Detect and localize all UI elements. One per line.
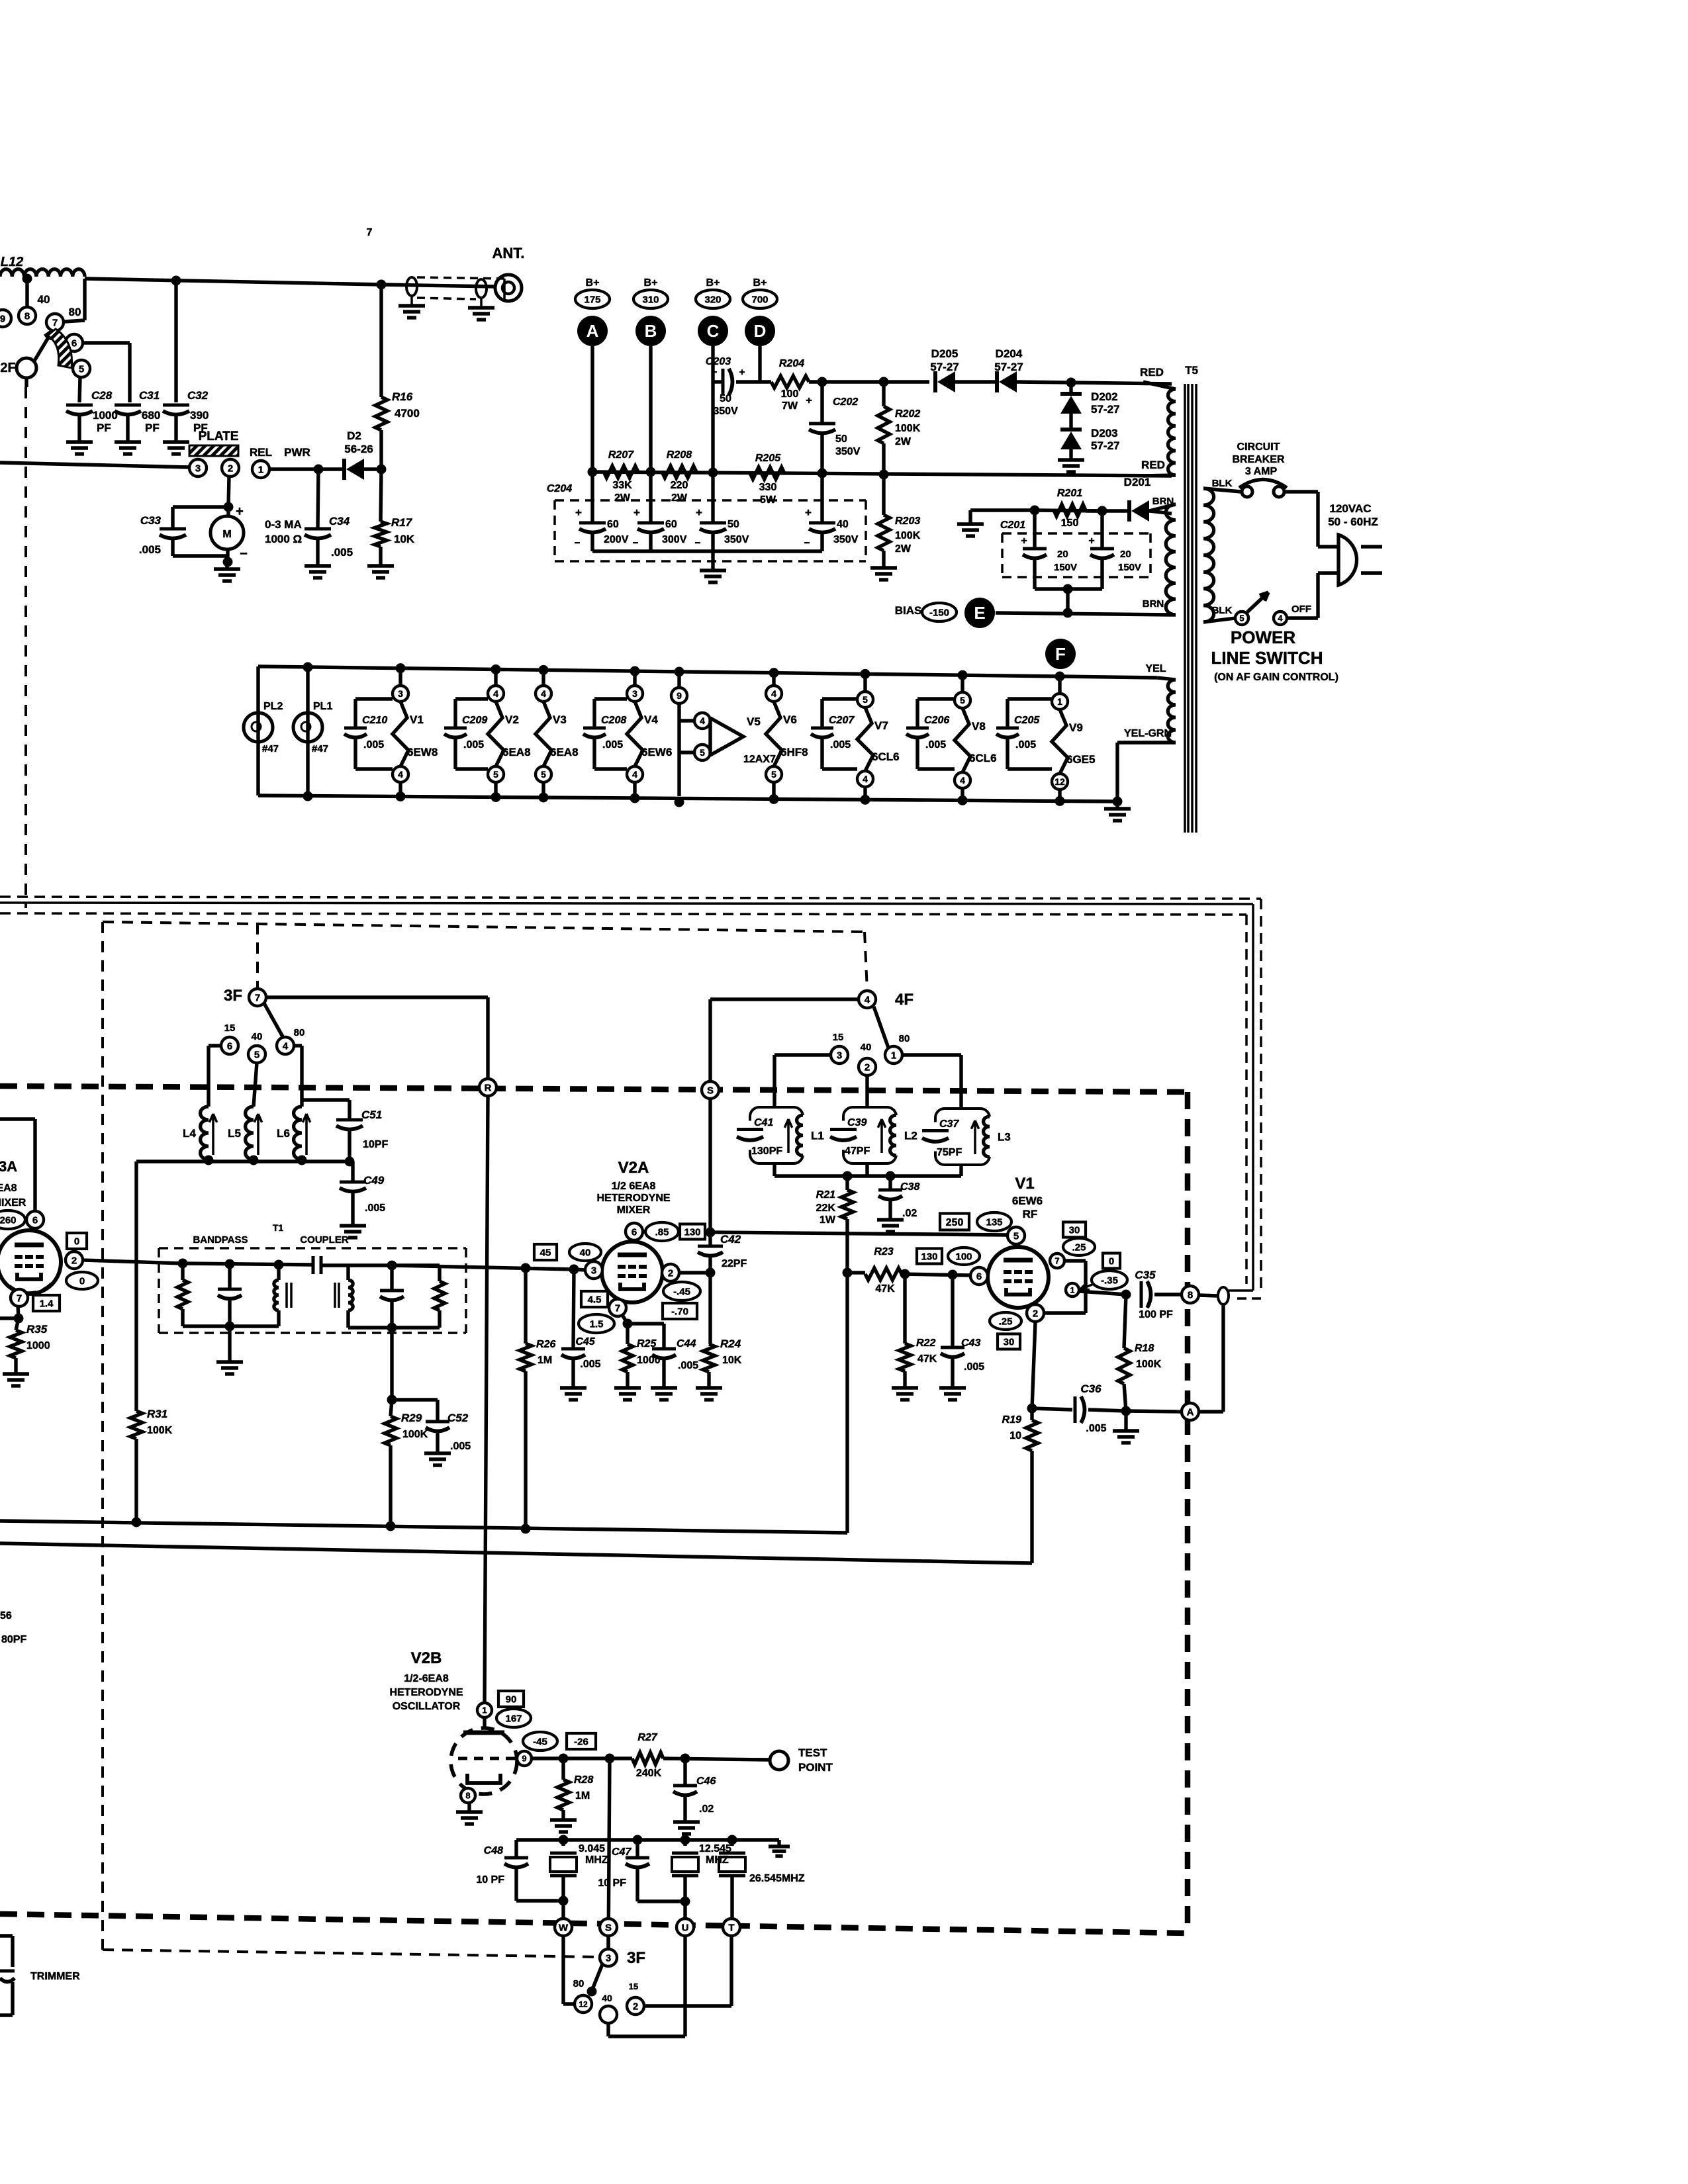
svg-text:5: 5 <box>863 694 868 705</box>
svg-text:R208: R208 <box>667 449 692 461</box>
tube V4 6EW6 heater <box>633 671 636 686</box>
terminal 7 <box>46 314 64 331</box>
svg-text:(ON AF GAIN CONTROL): (ON AF GAIN CONTROL) <box>1214 672 1338 683</box>
svg-text:.005: .005 <box>1015 739 1036 751</box>
svg-text:.005: .005 <box>602 739 623 751</box>
terminal S bottom <box>600 1919 617 1936</box>
resistor R16 4700 <box>379 285 383 397</box>
capacitor T1 coupling <box>312 1256 315 1274</box>
svg-text:C47: C47 <box>612 1846 632 1858</box>
wire V3A pin2 to coupler <box>83 1260 183 1263</box>
svg-text:BREAKER: BREAKER <box>1232 454 1285 465</box>
svg-text:C31: C31 <box>139 389 160 402</box>
ground below C204 <box>700 569 726 572</box>
svg-text:-150: -150 <box>929 607 949 618</box>
resistor R201 150 <box>1054 504 1086 516</box>
svg-text:C45: C45 <box>575 1336 595 1347</box>
svg-text:9: 9 <box>522 1754 526 1764</box>
tube V1 6EW8 heater <box>399 668 402 686</box>
svg-text:10 PF: 10 PF <box>476 1874 504 1886</box>
svg-text:3: 3 <box>606 1952 611 1964</box>
svg-text:-45: -45 <box>533 1736 547 1747</box>
svg-text:4: 4 <box>865 994 870 1005</box>
svg-text:100K: 100K <box>1136 1359 1162 1370</box>
svg-text:C36: C36 <box>1080 1383 1102 1395</box>
svg-text:B+: B+ <box>644 277 658 289</box>
wire pin1 to C35 <box>1079 1291 1126 1295</box>
terminal F <box>1045 639 1076 669</box>
svg-text:1.4: 1.4 <box>40 1298 54 1309</box>
svg-text:6EW6: 6EW6 <box>641 746 672 758</box>
wire T1 right bottom <box>348 1326 440 1329</box>
resistor R22 47K <box>903 1274 906 1343</box>
resistor R25 1000 <box>626 1324 629 1344</box>
wire B+ A down <box>590 346 594 472</box>
switch 4F terminal 1 <box>885 1046 902 1064</box>
svg-text:V1: V1 <box>410 713 424 726</box>
electrolytic C204A 60 200V <box>590 472 594 522</box>
svg-text:1: 1 <box>1070 1285 1075 1295</box>
ground at C36 <box>1124 1411 1127 1431</box>
wire coupler out to V2A pin3 <box>440 1265 466 1266</box>
svg-text:47K: 47K <box>875 1283 895 1295</box>
svg-text:RED: RED <box>1140 366 1164 379</box>
test point <box>770 1751 788 1770</box>
svg-text:D203: D203 <box>1091 427 1118 439</box>
terminal 9 <box>0 310 11 327</box>
resistor R35 1000 <box>18 1306 19 1318</box>
svg-text:40: 40 <box>837 519 849 530</box>
svg-text:5: 5 <box>254 1049 259 1060</box>
svg-text:#47: #47 <box>262 743 279 754</box>
wire 2 to T <box>644 2004 731 2007</box>
svg-text:.02: .02 <box>902 1208 917 1219</box>
wire B+ D down <box>758 346 761 382</box>
svg-text:10PF: 10PF <box>363 1139 388 1150</box>
svg-text:.25: .25 <box>999 1316 1013 1327</box>
svg-text:+: + <box>575 506 582 519</box>
svg-text:+: + <box>236 504 244 519</box>
svg-text:-.35: -.35 <box>1101 1275 1118 1286</box>
electrolytic C204D 40 350V <box>820 473 823 522</box>
svg-text:L6: L6 <box>277 1127 290 1140</box>
power switch terminal 5 <box>1235 612 1248 625</box>
capacitor C33 .005 <box>173 505 228 508</box>
svg-text:220: 220 <box>671 480 688 491</box>
resistor R204 100 7W <box>760 380 771 383</box>
svg-text:120VAC: 120VAC <box>1330 502 1372 515</box>
svg-text:PLATE: PLATE <box>199 430 239 443</box>
svg-text:4: 4 <box>283 1040 289 1052</box>
svg-text:V2A: V2A <box>618 1159 649 1177</box>
svg-text:2: 2 <box>71 1255 77 1266</box>
wire V1 cathode down <box>1032 1322 1035 1408</box>
svg-text:0-3 MA: 0-3 MA <box>265 518 302 531</box>
svg-text:#47: #47 <box>312 743 328 754</box>
wire tank bottom to R29 <box>390 1328 393 1400</box>
svg-text:260: 260 <box>0 1214 17 1226</box>
svg-text:+: + <box>696 506 702 519</box>
wire W to 12 <box>561 1936 565 2004</box>
wire coil common <box>136 1160 350 1163</box>
svg-text:−: − <box>633 537 639 549</box>
svg-text:T: T <box>728 1922 734 1933</box>
svg-text:3F: 3F <box>224 987 242 1005</box>
rotary switch hatched sector <box>48 329 72 368</box>
wire V2A pin2 to R24 <box>679 1271 710 1274</box>
svg-text:50: 50 <box>727 519 739 530</box>
svg-text:6EA8: 6EA8 <box>502 746 531 758</box>
switch 4F wiper <box>874 1007 888 1048</box>
svg-text:A: A <box>586 321 599 341</box>
svg-text:80: 80 <box>899 1033 910 1044</box>
svg-text:MIXER: MIXER <box>0 1197 26 1208</box>
wire S to 3F-3 <box>606 1936 610 1949</box>
svg-text:300V: 300V <box>662 534 687 545</box>
svg-text:10K: 10K <box>394 533 415 545</box>
svg-text:.005: .005 <box>678 1360 698 1371</box>
svg-text:C48: C48 <box>484 1845 503 1856</box>
svg-text:V5: V5 <box>747 715 761 728</box>
svg-text:80PF: 80PF <box>1 1634 26 1645</box>
svg-text:1M: 1M <box>575 1790 590 1801</box>
svg-text:100K: 100K <box>147 1425 173 1436</box>
svg-text:40: 40 <box>861 1042 872 1053</box>
terminal 6 <box>66 334 83 351</box>
svg-text:5: 5 <box>771 769 776 780</box>
svg-text:−: − <box>240 547 248 561</box>
V1 pin 6 <box>917 1249 942 1264</box>
svg-text:7: 7 <box>367 227 373 238</box>
svg-text:+: + <box>633 506 640 519</box>
svg-text:45: 45 <box>540 1247 551 1258</box>
svg-text:150: 150 <box>1061 518 1079 529</box>
svg-text:4: 4 <box>863 774 868 784</box>
wire L1 to 4F-3 <box>773 1055 776 1107</box>
svg-text:HETERODYNE: HETERODYNE <box>389 1687 463 1698</box>
svg-text:−: − <box>575 537 581 549</box>
svg-text:56: 56 <box>0 1610 12 1621</box>
wire from left edge to cathode <box>0 1316 19 1320</box>
svg-text:6EA8: 6EA8 <box>550 746 579 758</box>
svg-text:40: 40 <box>38 293 50 306</box>
capacitor C203 50/350V <box>713 380 723 383</box>
svg-text:22K: 22K <box>816 1203 836 1214</box>
wire YEL-GRN <box>1117 741 1176 744</box>
wire B+ C down <box>711 346 714 472</box>
wire antenna line <box>85 279 381 285</box>
svg-text:OFF: OFF <box>1291 604 1311 615</box>
svg-text:D202: D202 <box>1091 390 1118 403</box>
svg-text:130: 130 <box>684 1226 700 1238</box>
diode D202 57-27 <box>1069 383 1072 392</box>
crystal 26.545MHZ <box>730 1840 733 1846</box>
capacitor C49 .005 <box>351 1161 354 1182</box>
tube V3 6EA8 heater <box>541 670 545 686</box>
svg-text:-.70: -.70 <box>671 1306 688 1317</box>
svg-text:C52: C52 <box>447 1412 469 1424</box>
svg-text:40: 40 <box>580 1247 591 1258</box>
svg-text:167: 167 <box>505 1713 522 1724</box>
wire 3F to R <box>266 995 488 999</box>
svg-text:1/2 6EA8: 1/2 6EA8 <box>612 1181 656 1192</box>
svg-text:8: 8 <box>1188 1289 1193 1300</box>
terminal U <box>677 1919 694 1936</box>
svg-text:60: 60 <box>665 519 677 530</box>
resistor T1 right <box>392 1263 440 1267</box>
svg-text:.005: .005 <box>1086 1423 1106 1434</box>
svg-text:320: 320 <box>704 294 721 305</box>
wire U loop <box>683 1936 686 2036</box>
svg-text:T5: T5 <box>1185 364 1198 377</box>
ground bias left <box>968 510 972 524</box>
svg-text:2W: 2W <box>895 543 912 555</box>
capacitor C38 .02 <box>888 1176 892 1190</box>
svg-text:80: 80 <box>69 306 81 318</box>
svg-text:700: 700 <box>751 294 768 305</box>
svg-text:40: 40 <box>252 1031 263 1042</box>
svg-text:−: − <box>712 367 718 378</box>
svg-text:1000 Ω: 1000 Ω <box>265 533 302 545</box>
terminal 2 <box>222 459 239 477</box>
wire L common down to R31 <box>134 1161 138 1411</box>
svg-text:100 PF: 100 PF <box>1139 1309 1173 1320</box>
wire tank common <box>773 1163 776 1176</box>
svg-text:.005: .005 <box>925 739 946 751</box>
svg-text:-26: -26 <box>574 1736 588 1747</box>
capacitor T1 left <box>228 1264 231 1289</box>
svg-text:+: + <box>1088 535 1094 547</box>
resistor R203 100K 2W <box>882 475 885 515</box>
svg-text:C: C <box>707 321 720 341</box>
resistor R21 22K 1W <box>845 1176 849 1190</box>
svg-text:CIRCUIT: CIRCUIT <box>1237 441 1280 453</box>
svg-text:1.5: 1.5 <box>590 1318 604 1330</box>
svg-text:EA8: EA8 <box>0 1183 17 1194</box>
svg-text:4: 4 <box>960 775 965 786</box>
resistor R29 100K <box>385 1416 397 1445</box>
svg-text:R203: R203 <box>895 516 920 527</box>
switch 3F wiper to 80 <box>264 1003 283 1038</box>
crystal 12.545MHZ <box>683 1840 686 1846</box>
wire pin5 to C28 <box>79 377 80 402</box>
capacitor C31 680PF <box>115 404 141 407</box>
ground heater bus <box>1113 797 1123 807</box>
svg-text:ANT.: ANT. <box>492 245 525 261</box>
resistor R17 10K <box>381 469 381 522</box>
svg-text:2: 2 <box>865 1062 870 1073</box>
svg-text:57-27: 57-27 <box>1091 403 1119 416</box>
V1 pin 7 top right <box>1050 1253 1064 1268</box>
svg-text:C43: C43 <box>961 1338 980 1349</box>
svg-text:390: 390 <box>190 409 209 422</box>
inductor L5 <box>254 1063 257 1107</box>
svg-text:5: 5 <box>1013 1230 1019 1242</box>
svg-text:1: 1 <box>258 464 263 475</box>
tube V9 6GE5 heater <box>1058 676 1061 694</box>
svg-text:12: 12 <box>1055 776 1065 787</box>
svg-text:75PF: 75PF <box>937 1147 962 1158</box>
svg-text:350V: 350V <box>713 406 738 417</box>
svg-text:.005: .005 <box>450 1441 471 1452</box>
tank L1 C41 130PF <box>750 1107 803 1163</box>
svg-text:C41: C41 <box>754 1117 773 1128</box>
svg-text:C202: C202 <box>833 396 858 408</box>
wire to diode D2 <box>314 465 324 475</box>
svg-text:10: 10 <box>1009 1430 1021 1441</box>
electrolytic C204B 60 300V <box>649 473 652 522</box>
svg-text:4: 4 <box>398 769 403 780</box>
svg-text:PWR: PWR <box>284 446 310 459</box>
inner dashed wafer box <box>101 922 104 1950</box>
svg-text:C49: C49 <box>363 1174 385 1187</box>
svg-text:R22: R22 <box>916 1338 935 1349</box>
capacitor C202 50/350V <box>820 382 823 424</box>
tank L2 C39 47PF <box>843 1107 896 1163</box>
wire left lower feed <box>0 463 189 467</box>
svg-text:2W: 2W <box>671 492 688 504</box>
svg-text:50: 50 <box>835 433 847 445</box>
svg-text:10K: 10K <box>722 1355 742 1366</box>
transformer T5 HV secondary winding <box>1168 389 1176 475</box>
svg-text:C207: C207 <box>829 715 855 726</box>
terminal 3 <box>189 459 207 477</box>
svg-text:R24: R24 <box>720 1338 741 1350</box>
svg-text:6CL6: 6CL6 <box>872 751 900 763</box>
svg-text:MIXER: MIXER <box>617 1205 651 1216</box>
svg-text:1/2-6EA8: 1/2-6EA8 <box>404 1673 449 1684</box>
wire RED lower line <box>592 472 1172 476</box>
svg-text:15: 15 <box>629 1981 638 1991</box>
svg-text:15: 15 <box>833 1032 844 1043</box>
svg-text:.005: .005 <box>830 739 851 751</box>
svg-text:175: 175 <box>584 294 600 305</box>
capacitor C43 .005 <box>951 1275 954 1347</box>
svg-text:4: 4 <box>493 688 498 699</box>
capacitor C206 .005 heater bypass <box>915 699 919 728</box>
diode D2 56-26 <box>269 467 342 471</box>
svg-text:BRN: BRN <box>1143 598 1164 610</box>
svg-text:C46: C46 <box>696 1776 716 1787</box>
svg-text:S: S <box>605 1922 612 1933</box>
svg-text:80: 80 <box>294 1027 305 1038</box>
V2B pin 8 <box>461 1788 475 1803</box>
svg-text:R18: R18 <box>1135 1343 1154 1354</box>
svg-text:350V: 350V <box>833 534 859 545</box>
wire V2B grid row <box>532 1756 632 1760</box>
svg-text:PF: PF <box>145 422 160 434</box>
svg-text:47K: 47K <box>917 1353 937 1365</box>
svg-text:30: 30 <box>1069 1224 1080 1236</box>
inductor T1 secondary <box>321 1263 348 1267</box>
svg-text:350V: 350V <box>724 534 749 545</box>
svg-text:.005: .005 <box>463 739 484 751</box>
wire YEL to transformer <box>1060 676 1157 678</box>
svg-text:1: 1 <box>482 1706 487 1715</box>
svg-text:50: 50 <box>720 393 731 404</box>
svg-text:HETERODYNE: HETERODYNE <box>596 1193 670 1204</box>
V2A pin 3 <box>585 1261 602 1279</box>
wire crystal select down <box>608 1758 610 1949</box>
svg-text:C44: C44 <box>677 1338 696 1349</box>
svg-text:OSCILLATOR: OSCILLATOR <box>393 1701 461 1712</box>
svg-text:R27: R27 <box>637 1732 657 1743</box>
resistor R202 100K 2W <box>882 382 885 406</box>
svg-text:BIAS: BIAS <box>895 604 922 617</box>
svg-text:V3: V3 <box>553 713 567 726</box>
crystal 9.045MHZ <box>561 1840 565 1846</box>
svg-text:C38: C38 <box>900 1181 919 1193</box>
V2B pin 9 <box>517 1751 532 1766</box>
svg-text:V1: V1 <box>1015 1175 1034 1193</box>
terminal 8 <box>19 307 36 324</box>
svg-text:RED: RED <box>1141 459 1165 471</box>
svg-text:REL: REL <box>250 446 272 459</box>
diode D203 57-27 <box>1069 414 1072 428</box>
wire crystal top bus <box>516 1838 779 1841</box>
svg-text:47PF: 47PF <box>845 1146 870 1157</box>
coax shield at antenna <box>406 277 417 296</box>
svg-text:TEST: TEST <box>798 1747 827 1759</box>
svg-text:26.545MHZ: 26.545MHZ <box>749 1873 805 1884</box>
svg-text:2: 2 <box>1033 1308 1038 1319</box>
svg-text:4: 4 <box>541 688 546 699</box>
svg-text:15: 15 <box>224 1023 236 1034</box>
svg-text:330: 330 <box>759 482 777 493</box>
tube V2 6EA8 heater <box>494 669 497 686</box>
svg-text:COUPLER: COUPLER <box>300 1234 349 1246</box>
svg-text:+: + <box>805 506 812 519</box>
svg-text:3A: 3A <box>0 1158 17 1175</box>
resistor R207 33K 2W <box>604 466 638 478</box>
svg-text:D201: D201 <box>1124 476 1151 488</box>
svg-text:B+: B+ <box>706 277 720 289</box>
svg-text:2W: 2W <box>895 436 912 447</box>
svg-text:PF: PF <box>97 422 111 434</box>
svg-text:57-27: 57-27 <box>1091 439 1119 452</box>
svg-text:56-26: 56-26 <box>344 443 373 455</box>
V3A value boxes <box>67 1233 87 1249</box>
svg-text:R23: R23 <box>874 1246 893 1257</box>
wire to terminal A <box>1126 1411 1182 1412</box>
electrolytic C201B 20 150V <box>1100 511 1103 547</box>
svg-text:C39: C39 <box>847 1117 867 1128</box>
svg-text:L5: L5 <box>228 1127 241 1140</box>
svg-text:.005: .005 <box>363 739 384 751</box>
svg-text:3: 3 <box>837 1050 842 1061</box>
svg-text:100K: 100K <box>895 423 921 434</box>
svg-text:5: 5 <box>700 747 705 758</box>
V2A pin 7 <box>609 1299 626 1316</box>
wire heater bottom bus <box>258 796 1117 801</box>
wire B+ B down <box>649 346 652 472</box>
svg-text:1W: 1W <box>820 1214 836 1226</box>
terminal V3A pin 6 <box>0 1117 35 1120</box>
svg-text:680: 680 <box>142 409 160 422</box>
svg-text:0: 0 <box>74 1236 79 1247</box>
svg-text:R207: R207 <box>608 449 634 461</box>
svg-text:C209: C209 <box>462 715 487 726</box>
wire R23 row <box>847 1271 865 1274</box>
V1 pin 1 right <box>1066 1283 1079 1297</box>
capacitor C210 .005 heater bypass <box>353 699 357 728</box>
transformer T5 heater winding <box>1168 680 1176 743</box>
svg-text:4: 4 <box>632 769 637 780</box>
svg-text:.25: .25 <box>1072 1242 1086 1253</box>
capacitor C205 .005 heater bypass <box>1006 699 1009 728</box>
svg-text:6: 6 <box>632 1226 637 1238</box>
svg-text:6EW6: 6EW6 <box>1012 1195 1043 1207</box>
